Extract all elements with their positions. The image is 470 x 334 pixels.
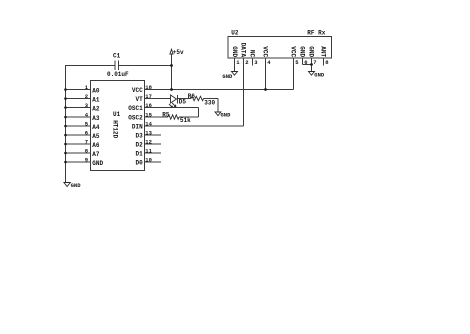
svg-text:14: 14 [145,120,152,127]
junction node bus pin3 [64,106,67,109]
svg-text:0.01uF: 0.01uF [107,71,129,78]
junction node bus pin1 [64,88,67,91]
svg-text:RF Rx: RF Rx [307,29,325,36]
svg-text:D3: D3 [135,133,143,140]
svg-text:U1: U1 [113,111,121,118]
wire pin5 A4 [66,125,91,127]
junction node bus pin9 [64,161,67,164]
svg-text:9: 9 [85,156,88,163]
junction node U2 pin6/pin7 [310,63,313,66]
svg-text:330: 330 [204,100,215,107]
svg-text:D2: D2 [135,142,143,149]
junction node U2 pin4/VCC row [264,88,267,91]
svg-text:A7: A7 [92,151,100,158]
svg-text:A4: A4 [92,124,100,131]
resistor R6 zigzag [191,96,204,100]
svg-text:A5: A5 [92,133,100,140]
LED D5 cathode bar [177,95,179,104]
LED D5 triangle [171,95,177,103]
junction node bus pin8 [64,152,67,155]
LED D5 emission arrow 2 [169,104,173,108]
svg-text:D5: D5 [179,99,187,106]
svg-text:51k: 51k [180,117,191,124]
svg-text:A3: A3 [92,115,100,122]
svg-text:16: 16 [145,102,152,109]
svg-text:18: 18 [145,84,152,91]
svg-text:VT: VT [135,96,143,103]
ground symbol at U2 pin7 [309,72,315,76]
wire VT pin17 to LED [145,98,171,100]
svg-text:6: 6 [85,129,88,136]
ground symbol at R6 [215,112,221,116]
svg-text:DATA: DATA [240,43,247,58]
svg-text:GND: GND [299,46,306,57]
ground symbol at U2 pin1 [232,72,238,76]
svg-text:1: 1 [236,59,240,66]
svg-text:R6: R6 [188,93,196,100]
svg-text:GND: GND [308,46,315,57]
svg-text:11: 11 [145,147,152,154]
wire pin1 A0 [66,89,91,91]
svg-text:A0: A0 [92,87,100,94]
wire D1 pin11 stub [145,152,162,154]
svg-text:GND: GND [92,160,103,167]
svg-text:OSC1: OSC1 [128,105,143,112]
wire +5V vertical [171,54,173,90]
svg-text:VCC: VCC [290,46,297,57]
wire OSC1-OSC2 vertical [198,108,200,118]
svg-text:15: 15 [145,111,152,118]
wire C1 left to bus [66,65,116,67]
bus wire left vertical [65,65,67,183]
svg-text:GND: GND [221,111,232,118]
wire R6 gnd vertical [217,99,219,113]
svg-text:GND: GND [222,73,233,80]
svg-text:+5v: +5v [173,49,184,56]
wire pin3 A2 [66,107,91,109]
svg-text:12: 12 [145,138,152,145]
wire DATA vertical to U2 pin2 [243,58,245,126]
svg-text:R5: R5 [162,111,170,118]
resistor R5 zigzag [168,115,179,119]
svg-text:7: 7 [313,59,316,66]
svg-text:OSC2: OSC2 [128,115,143,122]
junction node bus pin2 [64,97,67,100]
wire D3 pin13 stub [145,134,162,136]
junction node bus pin7 [64,143,67,146]
wire OSC2 pin15 to R5 [145,116,169,118]
op IC U1 box [91,81,145,171]
wire U2 pin7 stub [311,58,313,72]
wire pin8 A7 [66,152,91,154]
svg-text:10: 10 [145,156,152,163]
svg-text:GND: GND [71,182,82,189]
wire U2 pin3 stub [252,58,254,66]
ground symbol at bus bottom [64,183,70,187]
svg-text:7: 7 [85,138,88,145]
junction node bus pin6 [64,134,67,137]
svg-text:3: 3 [254,59,258,66]
wire D2 pin12 stub [145,143,162,145]
svg-text:2: 2 [245,59,248,66]
svg-text:13: 13 [145,129,152,136]
wire U2 pin1 stub [234,58,236,72]
junction node bus pin4 [64,116,67,119]
wire VCC pin18 row [145,89,294,91]
svg-text:A2: A2 [92,105,100,112]
svg-text:GND: GND [314,71,325,78]
svg-text:DIN: DIN [132,124,143,131]
svg-text:D1: D1 [135,151,143,158]
+5V power symbol arrow [170,49,173,54]
wire pin2 A1 [66,98,91,100]
wire LED to R6 [178,98,192,100]
junction node bus pin5 [64,125,67,128]
wire pin9 GND [66,161,91,163]
svg-text:HT12D: HT12D [112,120,119,138]
wire DIN pin14 row [145,125,244,127]
wire U2 pin6-pin7 link [303,64,312,66]
junction node C1/+5V [170,64,173,67]
capacitor C1 plates [114,61,116,71]
wire U2 pin4 vertical [265,58,267,90]
wire pin7 A6 [66,143,91,145]
wire OSC1 pin16 row [145,107,199,109]
svg-text:GND: GND [231,46,238,57]
svg-text:NC: NC [249,50,256,58]
svg-text:VCC: VCC [132,87,143,94]
svg-text:A6: A6 [92,142,100,149]
svg-text:VCC: VCC [262,46,269,57]
svg-text:U2: U2 [231,29,239,36]
svg-text:4: 4 [267,59,271,66]
svg-text:A1: A1 [92,96,100,103]
RF module U2 box [228,37,332,59]
wire U2 pin5 vertical [293,58,295,90]
wire C1 right to +5V vertical [119,65,172,67]
wire D0 pin10 stub [145,161,162,163]
wire pin4 A3 [66,116,91,118]
svg-text:6: 6 [304,59,307,66]
wire R5 to corner [179,116,199,118]
wire U2 pin6 stub [302,58,304,65]
svg-text:ANT: ANT [320,46,327,57]
svg-text:8: 8 [325,59,329,66]
svg-text:17: 17 [145,93,152,100]
svg-text:2: 2 [85,93,88,100]
junction node +5V/VCC row [170,88,173,91]
wire pin6 A5 [66,134,91,136]
wire R6 to corner [204,98,218,100]
wire U2 pin8 ANT stub [323,58,325,66]
svg-text:D0: D0 [135,160,143,167]
svg-text:C1: C1 [113,53,121,60]
svg-text:5: 5 [295,59,299,66]
LED D5 emission arrow 1 [172,103,176,107]
